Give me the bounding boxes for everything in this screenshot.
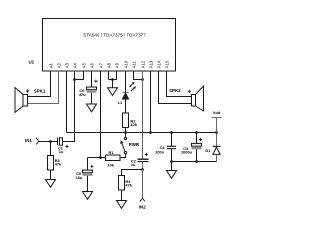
svg-text:IN2: IN2 [139, 205, 146, 210]
capacitor C4 [167, 133, 176, 162]
wire pin A11 bridge to A12 [134, 71, 143, 80]
ground R4 [117, 201, 127, 209]
op-amp U1 IC box STA540/TDA7375/TDA7377 [43, 19, 176, 72]
C5 plus [90, 165, 93, 168]
capacitor C1 [58, 138, 63, 146]
diode D1 [213, 133, 221, 162]
resistor R1 [88, 154, 126, 161]
svg-text:1u: 1u [131, 162, 136, 167]
svg-text:IN1: IN1 [25, 138, 32, 143]
capacitor C3 [192, 133, 202, 162]
SPK2 plus polarity [188, 90, 191, 93]
node C2/R4/IN2 [141, 168, 144, 171]
node C4 bottom junction [170, 160, 173, 163]
svg-text:STA540 / TDA7375 / TDA7377: STA540 / TDA7375 / TDA7377 [83, 33, 146, 38]
svg-text:A2: A2 [56, 62, 61, 68]
svg-text:A4: A4 [72, 62, 77, 68]
svg-text:SPK1: SPK1 [34, 89, 46, 94]
svg-text:A5: A5 [81, 62, 86, 68]
svg-text:47k: 47k [55, 161, 62, 166]
svg-text:A13: A13 [148, 60, 153, 68]
svg-text:A12: A12 [140, 60, 145, 68]
svg-text:SPK2: SPK2 [169, 88, 181, 93]
svg-text:A6: A6 [89, 62, 94, 68]
svg-text:A9: A9 [114, 62, 119, 68]
node C3 on bus [195, 131, 198, 134]
svg-text:47k: 47k [125, 182, 132, 187]
wire pin A7 down to R1 node [100, 71, 102, 158]
wire pin A2 to SPK1 bottom [28, 71, 59, 104]
C3 plus [199, 138, 202, 141]
svg-text:U1: U1 [29, 59, 35, 64]
wire pin A15 to SPK2 top [167, 71, 192, 97]
svg-text:A10: A10 [123, 60, 128, 68]
svg-text:47u: 47u [79, 92, 86, 97]
wire pin A5 bridge to A4 [75, 71, 84, 80]
svg-text:R1: R1 [109, 150, 115, 155]
node C3 bottom [195, 160, 198, 163]
capacitor C2 [138, 159, 149, 169]
svg-text:100n: 100n [155, 149, 164, 154]
C1 plus [65, 145, 68, 148]
wire pin A9 stub and bridge A8-A9 [109, 71, 117, 80]
node A11/A12 junction [141, 78, 144, 81]
svg-text:D1: D1 [205, 148, 211, 153]
ground C5 [83, 192, 93, 200]
resistor R3 [48, 142, 54, 180]
power bus wire [67, 132, 217, 134]
LED L1 [122, 92, 128, 113]
svg-text:1u: 1u [59, 149, 64, 154]
wire IN1 to C1 [39, 141, 58, 143]
connector IN2 [142, 170, 144, 199]
power symbol Vdd [212, 118, 222, 133]
speaker SPK2 [192, 86, 204, 111]
svg-text:Vdd: Vdd [213, 110, 221, 115]
svg-text:A1: A1 [48, 62, 53, 68]
node A13 on bus [149, 131, 152, 134]
resistor R4 [119, 170, 143, 201]
C6 plus [94, 80, 97, 83]
node D1 top on bus [215, 131, 218, 134]
supply bottom wire [172, 161, 217, 163]
wire pin A13 down to power bus [150, 71, 152, 133]
ground C6 [87, 104, 97, 112]
capacitor C5 [83, 158, 93, 192]
wire pin A6 down to C6 [91, 71, 93, 87]
LED arrows [130, 84, 135, 92]
wire pin A10 to LED [125, 71, 127, 92]
svg-text:A15: A15 [164, 60, 169, 68]
node R1/A7/C5 [99, 156, 102, 159]
wire pin A3 down to power bus [66, 71, 68, 133]
svg-text:A11: A11 [131, 60, 136, 68]
capacitor C6 [87, 87, 97, 104]
svg-text:A7: A7 [98, 62, 103, 68]
switch PWR [120, 137, 127, 153]
wire pin A4 down to C1 [63, 71, 75, 142]
wire pin A14 to SPK2 bottom [159, 71, 192, 104]
wire A8/A9 node to ground [112, 80, 114, 88]
resistor R2 [123, 113, 129, 137]
C2 plus [145, 153, 148, 156]
ground C4 bottom wire [171, 162, 173, 171]
SPK1 plus polarity [26, 89, 29, 92]
svg-text:A3: A3 [64, 62, 69, 68]
svg-text:10k: 10k [108, 163, 115, 168]
svg-text:1000u: 1000u [181, 150, 193, 155]
svg-text:A14: A14 [156, 60, 161, 68]
node C4 on bus [170, 131, 173, 134]
wire pin A8 stub [108, 71, 110, 80]
svg-text:A8: A8 [106, 62, 111, 68]
svg-text:16u: 16u [76, 175, 83, 180]
wire pin A12 down to C2 [142, 71, 144, 159]
ground A8/A9 [108, 88, 118, 96]
node A4/A5 junction [73, 78, 76, 81]
node R2/switch on bus [124, 131, 127, 134]
wire pin A1 to SPK1 top [28, 71, 51, 97]
node IN1/R3 junction [49, 140, 52, 143]
ground R3 [46, 180, 56, 188]
svg-text:PWR: PWR [129, 142, 140, 147]
svg-text:10k: 10k [130, 122, 137, 127]
node A8/A9 ground junction [111, 78, 114, 81]
speaker SPK1 [15, 88, 28, 113]
